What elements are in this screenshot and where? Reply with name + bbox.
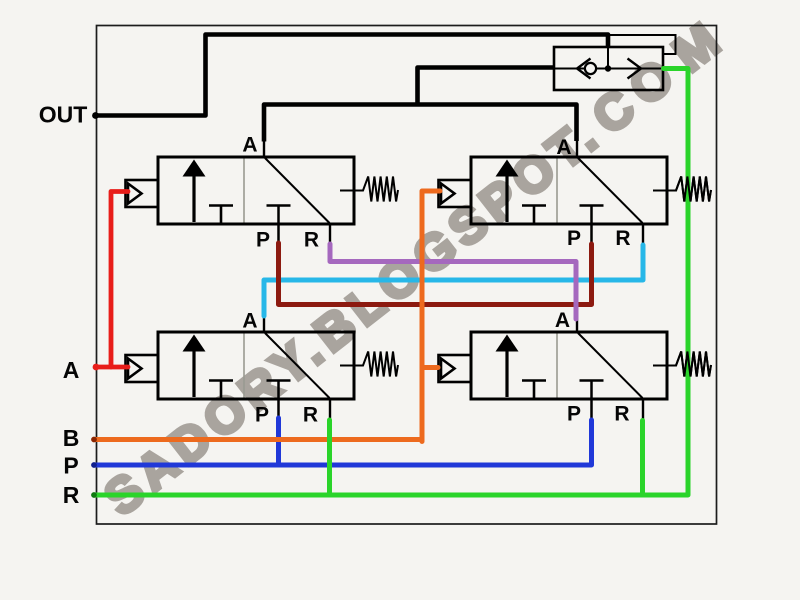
wire orange B bus xyxy=(94,437,422,442)
svg-text:R: R xyxy=(304,229,319,252)
svg-text:A: A xyxy=(242,310,257,333)
valve V1 divider xyxy=(243,159,245,223)
svg-text:A: A xyxy=(63,357,80,383)
svg-text:A: A xyxy=(242,134,257,157)
valve V3 diagonal flow path xyxy=(265,333,330,398)
svg-text:P: P xyxy=(255,404,269,427)
wire blue P bus xyxy=(94,420,592,465)
valve V4 flow arrow xyxy=(505,349,508,397)
valve V4 blocked port T at P xyxy=(580,379,604,382)
valve V1 port P stem xyxy=(277,206,280,245)
valve V4 port R stem xyxy=(642,398,644,421)
wire maroon V1-P to V2-P xyxy=(279,243,592,305)
wire orange riser to V2 pilot xyxy=(422,191,440,442)
valve V1 blocked port T at P xyxy=(267,204,291,207)
wire cyan V2-R to V3-A xyxy=(264,245,643,316)
valve V2 return spring xyxy=(653,177,711,202)
valve V4 body xyxy=(471,332,667,399)
shuttle valve ball xyxy=(585,63,596,74)
valve V4 pilot actuator xyxy=(439,355,472,382)
valve V1 diagonal flow path xyxy=(265,158,330,223)
svg-text:R: R xyxy=(614,403,629,426)
valve V3 blocked port T left xyxy=(209,379,233,382)
shuttle valve body xyxy=(554,47,663,90)
valve V3 return spring xyxy=(340,352,398,377)
valve V1 pilot actuator xyxy=(126,180,159,207)
valve V3 port P stem xyxy=(277,381,280,420)
valve V1 body xyxy=(158,157,354,224)
svg-text:P: P xyxy=(63,453,78,479)
shuttle valve internal branch xyxy=(607,47,609,66)
svg-text:B: B xyxy=(63,425,80,451)
valve V3 port A stem xyxy=(263,316,265,333)
valve V4 port A stem xyxy=(576,318,578,333)
valve V2 divider xyxy=(556,159,558,223)
svg-text:R: R xyxy=(63,482,80,508)
valve V3 pilot actuator xyxy=(126,355,159,382)
valve V3 divider xyxy=(243,334,245,398)
valve V1 return spring xyxy=(340,177,398,202)
wire OUT net xyxy=(96,35,609,116)
valve V2 pilot actuator xyxy=(439,180,472,207)
valve V1 port A stem xyxy=(263,140,265,158)
valve V4 return spring xyxy=(653,352,711,377)
wire green V4-R drop xyxy=(640,421,645,496)
valve V4 diagonal flow path xyxy=(578,333,643,398)
shuttle valve junction dot xyxy=(605,65,611,71)
svg-text:A: A xyxy=(555,309,570,332)
valve V2 return spring overlay xyxy=(653,177,711,202)
wire green R bus from shuttle outlet xyxy=(94,69,688,496)
valve V3 port R stem xyxy=(329,398,331,421)
valve V4 blocked port T left xyxy=(522,379,546,382)
svg-text:OUT: OUT xyxy=(39,102,88,128)
svg-text:P: P xyxy=(567,227,581,250)
valve V2 diagonal flow path xyxy=(578,158,643,223)
valve V2 port P stem xyxy=(590,206,593,245)
node red terminal dot xyxy=(93,364,100,371)
node green bus end dot xyxy=(91,492,97,498)
valve V2 port R stem xyxy=(642,223,644,245)
shuttle valve seat chevron xyxy=(577,59,591,79)
valve V4 return spring overlay xyxy=(653,352,711,377)
valve V2 blocked port T at P xyxy=(580,204,604,207)
node orange bus end dot xyxy=(91,437,97,443)
node blue bus end dot xyxy=(91,462,97,468)
border frame xyxy=(97,26,717,525)
svg-text:R: R xyxy=(615,227,630,250)
shuttle valve arrow chevron xyxy=(628,59,642,79)
svg-text:R: R xyxy=(303,404,318,427)
svg-text:P: P xyxy=(567,403,581,426)
valve V1 flow arrow xyxy=(192,174,195,222)
wire blue V3-P drop xyxy=(276,418,281,465)
wire A-net trunk xyxy=(264,105,577,142)
valve V2 body xyxy=(471,157,667,224)
valve V3 blocked port T at P xyxy=(267,379,291,382)
shuttle valve centerline xyxy=(554,68,663,70)
wire green V3-R drop xyxy=(327,420,332,495)
valve V2 port A stem xyxy=(576,140,578,158)
node OUT terminal dot xyxy=(92,112,99,119)
valve V4 port P stem xyxy=(590,381,593,420)
svg-text:P: P xyxy=(256,229,270,252)
valve V3 flow arrow xyxy=(192,349,195,397)
wire red pilot line A xyxy=(96,365,128,370)
wire orange branch to V4 pilot xyxy=(422,365,438,370)
wire shuttle right inlet loop xyxy=(610,35,676,54)
wire A-net branch to shuttle left inlet xyxy=(418,68,554,105)
valve V2 blocked port T left xyxy=(522,204,546,207)
wire purple V1-R to V4-A xyxy=(330,244,576,319)
valve V3 body xyxy=(158,332,354,399)
valve V2 flow arrow xyxy=(505,174,508,222)
valve V1 port R stem xyxy=(329,223,331,245)
svg-text:A: A xyxy=(556,136,571,159)
valve V1 blocked port T left xyxy=(209,204,233,207)
valve V4 divider xyxy=(556,334,558,398)
